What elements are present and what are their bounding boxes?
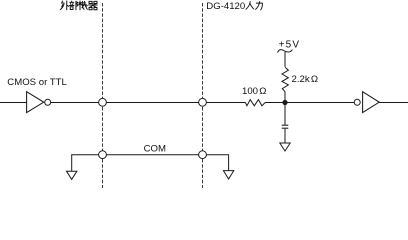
boundary dashed line (DG-4120 side) xyxy=(202,3,204,188)
機 xyxy=(79,1,88,10)
wire: +5V to resistor R2 xyxy=(284,52,286,67)
resistor R1 100Ω (series) xyxy=(245,100,265,106)
buffer U1 (external driver triangle) xyxy=(27,92,44,113)
buffer U2 (DG-4120 input gate) xyxy=(363,92,380,113)
wire: pin to resistor R1 xyxy=(206,102,245,104)
ground symbol (external COM) xyxy=(67,171,77,179)
connector pin circle (external boundary, COM) xyxy=(99,151,107,159)
wire: R1 to junction xyxy=(265,102,285,104)
wire: U1 output to connector pin 1 xyxy=(51,102,99,104)
ground symbol (DG-4120 COM) xyxy=(223,171,233,179)
力 xyxy=(256,2,263,10)
器 xyxy=(89,1,98,9)
外 xyxy=(60,1,68,10)
svg-text:2.2kΩ: 2.2kΩ xyxy=(292,74,319,85)
wire: capacitor to ground xyxy=(284,129,286,143)
inverter bubble at U2 input xyxy=(354,99,360,105)
label 外部機器 (external equipment) xyxy=(60,1,97,10)
boundary dashed line (external side) xyxy=(102,3,104,188)
wire: left input segment xyxy=(0,102,27,104)
svg-text:DG-4120: DG-4120 xyxy=(206,1,245,12)
wire: junction to right buffer xyxy=(285,102,354,104)
resistor R2 2.2kΩ (pull-up) xyxy=(282,67,288,92)
wire: R2 to junction xyxy=(284,92,286,103)
入 xyxy=(246,2,254,10)
wire: between boundary pins xyxy=(106,102,198,104)
connector pin circle (DG-4120 boundary, COM) xyxy=(199,151,207,159)
capacitor C1 xyxy=(282,125,289,128)
inverter bubble at U1 output xyxy=(45,99,51,105)
wire: junction down to capacitor C1 xyxy=(284,103,286,125)
wire: COM pin to left ground xyxy=(72,155,99,172)
部 xyxy=(70,1,78,10)
wire: U2 output to right edge xyxy=(379,102,408,104)
connector pin circle (external boundary, signal) xyxy=(99,98,107,106)
+5V supply symbol xyxy=(278,39,301,52)
connector pin circle (DG-4120 boundary, signal) xyxy=(199,98,207,106)
wire: COM pin to right ground xyxy=(206,155,228,171)
svg-text:COM: COM xyxy=(144,143,166,154)
node junction dot xyxy=(282,100,287,105)
svg-text:CMOS or TTL: CMOS or TTL xyxy=(7,77,67,88)
svg-text:100Ω: 100Ω xyxy=(242,86,266,97)
svg-text:+5V: +5V xyxy=(279,39,301,50)
wire: COM between boundary pins xyxy=(106,154,198,156)
ground symbol (below C1) xyxy=(280,143,290,151)
